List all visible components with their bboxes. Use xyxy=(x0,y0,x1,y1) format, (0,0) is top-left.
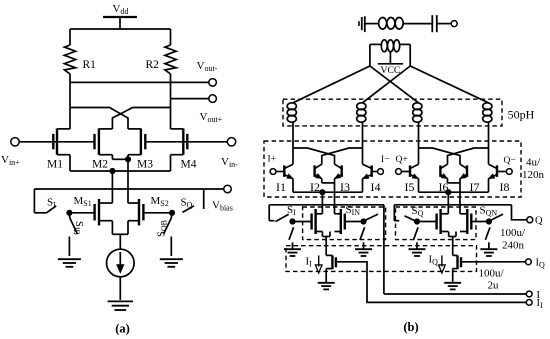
power rail VCC bar xyxy=(378,63,403,65)
wire I line to terminal xyxy=(384,293,526,295)
transistor I3 xyxy=(341,165,343,177)
wire Vout- line xyxy=(70,81,209,83)
transistor I7 xyxy=(466,165,468,177)
wire I4 base line xyxy=(372,171,378,173)
wire I8 base line xyxy=(497,171,506,173)
wire Lvcc left leg xyxy=(369,44,371,66)
svg-text:M1: M1 xyxy=(47,159,63,171)
transistor I2 xyxy=(313,165,315,177)
switch SQ xyxy=(203,189,205,209)
ground tail IQ xyxy=(444,282,461,284)
transistor I8 xyxy=(496,165,498,177)
ground center xyxy=(108,300,133,302)
svg-text:IQ: IQ xyxy=(429,254,439,267)
svg-text:SI: SI xyxy=(47,197,56,210)
wire Q+ base line xyxy=(401,171,410,173)
wire MS2 drain riser xyxy=(127,159,129,203)
svg-text:50pH: 50pH xyxy=(508,108,535,122)
wire C1 to L1 xyxy=(365,23,379,25)
transistor switch FET SQN xyxy=(470,214,472,230)
switch SI down to ground xyxy=(289,227,294,240)
svg-text:VCC: VCC xyxy=(380,65,400,76)
wire MS1 gate line xyxy=(69,212,94,214)
wire I+ base line xyxy=(276,171,284,173)
svg-text:I: I xyxy=(537,290,541,301)
ground SI xyxy=(284,248,301,250)
svg-text:SI: SI xyxy=(287,204,296,217)
wire tail join xyxy=(112,233,128,235)
switch SQ b xyxy=(393,205,395,221)
transistor switch FET SIN xyxy=(344,214,346,230)
switch SI b xyxy=(268,205,270,221)
ground SQ xyxy=(409,248,426,250)
transistor I6 xyxy=(439,165,441,177)
transistor M3 xyxy=(144,134,146,149)
dashed box tail transistors xyxy=(286,246,477,272)
wire I1 emitter down xyxy=(292,179,294,193)
wire tail IQ gate line to IQ terminal xyxy=(461,261,526,263)
transistor switch FET SQ xyxy=(435,214,437,230)
wire column2 L50 down xyxy=(362,122,364,164)
svg-text:Q+: Q+ xyxy=(396,155,408,165)
wire cross-couple left to M3 drain xyxy=(70,108,128,130)
transistor I1 xyxy=(283,165,285,177)
wire Q-enable rail xyxy=(394,204,511,206)
terminal Q- xyxy=(506,169,512,175)
wire tail II source to ground xyxy=(325,269,327,283)
svg-text:Vin-: Vin- xyxy=(221,156,238,169)
wire fan to L50-2 xyxy=(363,66,411,103)
svg-text:R2: R2 xyxy=(146,59,160,71)
wire SI gate line xyxy=(293,221,312,223)
svg-text:IQ: IQ xyxy=(536,258,546,270)
svg-text:M4: M4 xyxy=(181,159,197,171)
svg-text:SQ: SQ xyxy=(181,197,193,210)
wire cross-couple right group to I6 xyxy=(448,148,489,164)
wire inner source rail M2-M3 xyxy=(112,158,128,160)
wire inner emitter rail right group xyxy=(448,182,461,184)
wire M2 source down xyxy=(111,155,113,160)
svg-text:I−: I− xyxy=(381,155,390,165)
svg-text:Vout+: Vout+ xyxy=(200,111,223,124)
transistor tail II xyxy=(331,255,333,269)
wire MS2 source down xyxy=(127,221,129,235)
ground right xyxy=(160,258,183,260)
current source I0 xyxy=(107,249,135,277)
wire C2 to terminal xyxy=(437,23,451,25)
inductor L50-3 xyxy=(413,103,422,110)
wire L1 to C2 xyxy=(403,23,432,25)
wire cross-couple right group to I7 xyxy=(419,148,461,164)
wire M3 source down xyxy=(127,155,129,160)
dashed box 50pH inductors xyxy=(283,99,502,126)
wire M1 source down xyxy=(69,155,71,171)
node right outer rail junction xyxy=(446,190,451,195)
terminal tune xyxy=(451,21,457,27)
ground tail II xyxy=(318,282,335,284)
svg-text:240n: 240n xyxy=(502,240,525,252)
wire fan to L50-4 xyxy=(410,66,488,103)
wire I4 emitter down xyxy=(362,179,364,193)
svg-text:Vdd: Vdd xyxy=(113,3,129,16)
transistor MS2 xyxy=(142,204,144,221)
wire SIN gate line xyxy=(345,221,364,223)
wire outer emitter rail right group xyxy=(419,191,489,193)
wire Lvcc center tap xyxy=(389,52,391,64)
wire SQ gate line xyxy=(417,221,437,223)
wire I2 emitter down xyxy=(321,179,323,183)
wire Vbias rail xyxy=(34,188,223,190)
switch SIN blade xyxy=(365,214,379,221)
wire current source to ground xyxy=(119,277,121,300)
ground SQN xyxy=(480,248,497,250)
dashed box right switches xyxy=(396,207,477,240)
wire Q rail to Q terminal xyxy=(512,205,527,220)
wire MS1 source down xyxy=(111,221,113,235)
transistor MS1 xyxy=(93,204,95,221)
svg-text:I1: I1 xyxy=(276,180,286,194)
wire SQN gate line xyxy=(471,221,489,223)
wire fan to L50-3 xyxy=(370,66,419,103)
wire I6 emitter down xyxy=(447,179,449,183)
svg-text:Vin+: Vin+ xyxy=(1,154,20,167)
node left outer rail junction xyxy=(320,190,325,195)
wire Lvcc right leg xyxy=(409,44,411,66)
switch SQN down to ground xyxy=(485,227,490,240)
ground left xyxy=(58,258,81,260)
switch SQN blade xyxy=(490,214,503,221)
wire inner emitter rail left group xyxy=(322,182,335,184)
svg-text:100u/: 100u/ xyxy=(479,268,505,280)
transistor M1 xyxy=(52,134,54,149)
dashed box transistor array xyxy=(264,141,521,197)
wire left outer to switch FET xyxy=(321,192,323,214)
svg-text:2u: 2u xyxy=(488,280,500,292)
wire Vout+ line xyxy=(171,98,209,100)
wire column3 L50 down xyxy=(418,122,420,164)
terminal Vin- xyxy=(227,138,235,146)
svg-text:MS2: MS2 xyxy=(151,195,169,208)
wire R1 top xyxy=(69,29,71,45)
wire right column R2 to M4 drain xyxy=(170,74,172,129)
terminal II bottom xyxy=(526,300,532,306)
svg-text:Q−: Q− xyxy=(504,156,516,166)
dashed box left switches xyxy=(303,207,386,240)
wire I5 emitter down xyxy=(418,179,420,193)
transistor I4 xyxy=(371,165,373,177)
node SI-MS1 junction xyxy=(67,210,72,215)
terminal I+ xyxy=(270,169,276,175)
transistor I5 xyxy=(409,165,411,177)
wire tail II gate line to II terminal xyxy=(336,262,526,303)
terminal Vin+ xyxy=(11,138,19,146)
svg-text:MS1: MS1 xyxy=(74,195,92,208)
wire M4 source down xyxy=(170,155,172,171)
wire MS2 gate line xyxy=(143,212,172,214)
wire R2 top xyxy=(170,29,172,45)
resistor R1 xyxy=(64,45,75,74)
inductor L1 top chain xyxy=(379,18,387,30)
capacitor C1 top-left xyxy=(358,21,360,26)
wire cross-couple left group to I2 xyxy=(322,148,363,164)
capacitor C2 xyxy=(431,15,433,32)
transistor tail IQ xyxy=(456,255,458,269)
resistor R2 xyxy=(165,45,176,74)
wire fan to L50-1 xyxy=(293,66,370,103)
svg-text:Vbias: Vbias xyxy=(212,200,233,213)
wire cross-couple left group to I3 xyxy=(293,148,335,164)
transistor M2 xyxy=(93,134,95,149)
switch SI xyxy=(33,189,35,213)
node SQ-MS2 junction xyxy=(169,210,174,215)
terminal Vout- xyxy=(209,79,217,87)
node SI b junction xyxy=(290,219,295,224)
svg-text:(b): (b) xyxy=(403,320,418,334)
switch SQ down to ground xyxy=(414,227,419,240)
svg-text:100u/: 100u/ xyxy=(500,227,526,239)
wire SQ pair sources join xyxy=(448,232,450,237)
svg-text:SQN: SQN xyxy=(480,205,498,218)
svg-text:SIB: SIB xyxy=(72,221,84,235)
wire gate line Vin+ to M2 xyxy=(19,141,95,143)
node inner rail junction xyxy=(125,157,130,162)
wire outer source rail M1-M4 xyxy=(70,170,171,172)
power rail Vdd symbol xyxy=(103,16,137,18)
svg-text:SQB: SQB xyxy=(157,220,169,237)
svg-text:120n: 120n xyxy=(522,169,545,181)
terminal IQ xyxy=(526,259,532,265)
node SQN junction xyxy=(486,219,491,224)
wire I3 emitter riser down xyxy=(334,179,336,214)
switch SIN down to ground xyxy=(360,227,365,240)
terminal Vout+ xyxy=(209,95,217,103)
svg-text:M2: M2 xyxy=(92,159,108,171)
terminal Q xyxy=(527,217,533,223)
svg-text:Vout-: Vout- xyxy=(197,60,218,73)
ground SIN xyxy=(355,248,372,250)
wire right outer to switch FET xyxy=(447,192,449,214)
node SIN junction xyxy=(361,219,366,224)
svg-text:I5: I5 xyxy=(405,180,415,194)
node SQ b junction xyxy=(414,219,419,224)
svg-text:M3: M3 xyxy=(137,159,153,171)
svg-text:II: II xyxy=(306,256,313,269)
wire column1 L50 to I1 collector xyxy=(292,122,294,164)
svg-text:I4: I4 xyxy=(371,180,381,194)
wire top rail xyxy=(70,28,171,30)
wire I7 emitter riser down xyxy=(459,179,461,214)
switch SIB xyxy=(68,213,70,218)
terminal I xyxy=(526,291,532,297)
svg-text:I8: I8 xyxy=(500,180,510,194)
transistor M4 xyxy=(186,134,188,149)
wire left column R1 to M1 drain xyxy=(69,74,71,129)
switch SQB xyxy=(170,213,173,218)
svg-text:I+: I+ xyxy=(268,155,277,165)
svg-text:(a): (a) xyxy=(115,322,130,336)
wire tail IQ source to ground xyxy=(452,269,454,283)
transistor switch FET SI xyxy=(310,214,312,230)
inductor L50-4 xyxy=(483,103,492,110)
wire column4 L50 to I8 collector xyxy=(488,122,490,164)
wire I rail to bottom xyxy=(383,205,385,294)
terminal Q+ xyxy=(396,169,402,175)
wire I8 emitter down xyxy=(488,179,490,193)
svg-text:Q: Q xyxy=(535,216,543,227)
svg-text:SIN: SIN xyxy=(346,204,361,217)
wire gate line M3 to Vin- xyxy=(145,141,227,143)
wire I-enable rail xyxy=(269,204,384,206)
svg-text:4u/: 4u/ xyxy=(526,157,541,169)
node outer rail junction xyxy=(110,168,115,173)
wire outer emitter rail left group xyxy=(293,191,363,193)
wire cross-couple right to M2 drain xyxy=(112,108,170,130)
wire MS1 drain riser xyxy=(111,171,113,203)
inductor Lvcc xyxy=(381,40,387,52)
svg-text:R1: R1 xyxy=(83,59,97,71)
terminal I- xyxy=(378,169,384,175)
inductor L50-1 xyxy=(287,103,296,110)
wire SI pair sources join xyxy=(321,232,323,237)
terminal Vbias xyxy=(224,185,232,193)
inductor L50-2 xyxy=(357,103,366,110)
